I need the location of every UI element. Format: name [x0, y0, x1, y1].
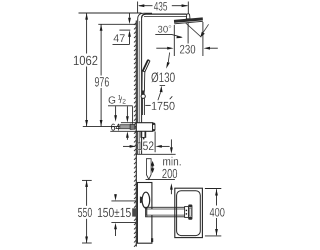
dim 435 arrowheads [138, 4, 144, 7]
dim diameter 130 stub [170, 96, 173, 99]
dim 150 tol lower arrow [114, 223, 117, 236]
svg-text:976: 976 [95, 75, 110, 90]
dim 64 lower arrow [126, 131, 129, 139]
head shower box outer (top view) [175, 188, 203, 237]
dim 550 bottom tick [82, 242, 92, 244]
dim 64 extension bottom [110, 130, 136, 132]
adjustability arrow up [151, 161, 154, 167]
arm end bracket [189, 205, 192, 220]
dim min 200 upper arrow [170, 139, 173, 153]
valve end cap [153, 123, 155, 131]
dim 435 extension left [137, 2, 139, 13]
svg-text:435: 435 [154, 0, 168, 13]
hand shower hose [142, 98, 144, 115]
dim 976 line [100, 25, 102, 127]
dim 435 extension right (head center line upper) [187, 2, 189, 14]
ball joint of head shower [186, 14, 190, 19]
column end line [136, 153, 175, 155]
dim 152 right arrow [155, 145, 169, 148]
svg-text:1750: 1750 [151, 99, 175, 113]
dim 47 short reference line [119, 29, 130, 31]
housing set screw [151, 238, 153, 242]
dim 976 arrowheads [100, 24, 103, 30]
head center line lower [187, 23, 189, 44]
dim 47 lower arrow [128, 30, 131, 44]
wall hatching [134, 23, 136, 247]
top reference line T1 [79, 12, 142, 14]
dim 230 extension left [173, 25, 175, 56]
dim 550 top tick [82, 179, 92, 181]
dim 1062 arrowheads [85, 13, 88, 19]
label G 1/2 text [108, 94, 126, 106]
label G 1/2 leader B [132, 106, 134, 124]
svg-text:47: 47 [113, 33, 125, 45]
top reference line T2 [98, 23, 136, 25]
head shower disc bottom edge [174, 21, 203, 24]
adjustability arrow down [151, 167, 154, 173]
svg-text:64: 64 [111, 122, 121, 133]
shower column tube [138, 18, 142, 154]
dim min 200 shelf [146, 178, 175, 180]
top view arm outline [146, 207, 186, 217]
dim 47 text shelf [113, 43, 130, 45]
svg-text:2: 2 [122, 99, 126, 106]
hand shower head [143, 60, 150, 72]
dim diameter 130 upper leader [166, 53, 170, 69]
hand shower handle cap [142, 91, 145, 94]
label G 1/2 leader A [114, 106, 117, 122]
dim 152 extension right [154, 132, 156, 153]
wall line [135, 21, 137, 247]
dim 400 line [216, 189, 218, 235]
cut mark pencil [146, 159, 151, 180]
hand shower handle [142, 71, 145, 91]
dim 47 upper arrow [128, 13, 131, 24]
control knob ellipse [142, 192, 150, 208]
supply pipe shaft [120, 125, 130, 129]
arm end hub [185, 207, 189, 218]
valve center reference line [83, 126, 136, 128]
dim 1062 line [86, 13, 88, 126]
dim 435 line [139, 5, 188, 7]
dim diameter 130 lower arrow [158, 85, 165, 100]
dim 550 line [86, 181, 88, 243]
head shower disc [174, 17, 203, 23]
control knob cone [140, 196, 143, 203]
dim min 200 text [162, 155, 182, 182]
dim 400 arrowheads [215, 189, 218, 195]
hand shower hose nut [141, 94, 145, 98]
dim 550 arrowheads [85, 181, 88, 187]
dim 64 extension top [121, 122, 136, 124]
svg-text:Ø130: Ø130 [151, 70, 175, 85]
svg-text:30°: 30° [158, 24, 173, 36]
svg-text:G: G [108, 96, 116, 107]
label G 1/2 underline [108, 105, 133, 107]
label 30 degrees leader [155, 34, 183, 38]
head tilt line left [186, 23, 202, 37]
dim 150 tol extension bottom [111, 222, 136, 224]
svg-text:200: 200 [162, 166, 178, 181]
dim 150 tol upper arrow [114, 194, 117, 200]
dim 230 right arrow [204, 47, 218, 50]
svg-text:152: 152 [137, 139, 154, 153]
dim min 200 lower arrow [170, 183, 173, 194]
svg-text:550: 550 [78, 205, 92, 220]
dim 64 upper arrow [126, 106, 129, 122]
svg-text:150±15: 150±15 [97, 205, 131, 220]
dim 150 tol extension top [111, 200, 136, 202]
dim 152 left arrow [123, 145, 136, 148]
valve body [136, 123, 152, 132]
dim 230 left arrow [156, 47, 173, 50]
lower housing (top view) [137, 183, 152, 244]
dim 400 extension top [205, 188, 221, 190]
svg-text:400: 400 [210, 206, 226, 220]
valve diverter knob [141, 131, 146, 139]
dim 1750 leader [145, 104, 150, 106]
supply pipe flare [130, 124, 135, 129]
head shower box inner rounded [177, 191, 201, 236]
head tilt arrow [200, 24, 208, 37]
svg-text:230: 230 [180, 43, 196, 57]
dim 400 extension bottom [205, 235, 221, 237]
svg-text:1062: 1062 [73, 53, 98, 68]
wall plug behind arm [132, 208, 136, 216]
dim 230 extension right [202, 22, 204, 56]
shower arm horizontal tube [138, 13, 187, 19]
